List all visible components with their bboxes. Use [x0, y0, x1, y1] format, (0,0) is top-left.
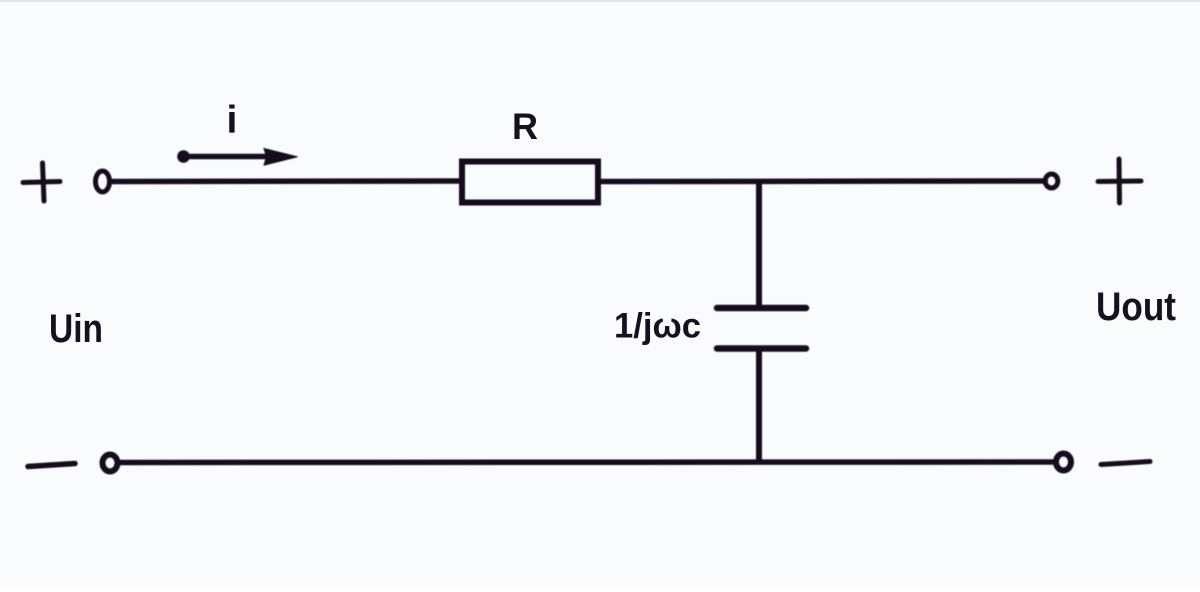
wire: input terminal to resistor R	[112, 178, 461, 184]
terminal: Uout − (bottom-right)	[1056, 454, 1071, 471]
wire: resistor R to output terminal	[601, 178, 1045, 184]
svg-text:1/jωc: 1/jωc	[614, 307, 701, 346]
bottom light strip (decorative gradient of source image)	[0, 585, 1200, 592]
wire: capacitor C bottom plate down to bottom rail	[756, 351, 762, 461]
plus sign (input +)	[23, 163, 60, 201]
minus sign (output −)	[1101, 462, 1150, 465]
capacitor C (1/jωc)	[717, 308, 806, 349]
resistor R	[462, 162, 598, 203]
svg-text:i: i	[227, 99, 238, 142]
svg-text:Uout: Uout	[1096, 285, 1176, 329]
wire: junction down to capacitor C top plate	[756, 182, 762, 304]
svg-text:R: R	[512, 106, 538, 147]
svg-text:Uin: Uin	[49, 307, 103, 351]
terminal: Uin + (top-left)	[96, 171, 110, 192]
wire: bottom rail	[120, 459, 1054, 465]
minus sign (input −)	[28, 464, 75, 467]
terminal: Uin − (bottom-left)	[103, 455, 118, 472]
terminal: Uout + (top-right)	[1045, 174, 1058, 188]
current arrow i	[177, 149, 297, 166]
plus sign (output +)	[1098, 159, 1141, 203]
